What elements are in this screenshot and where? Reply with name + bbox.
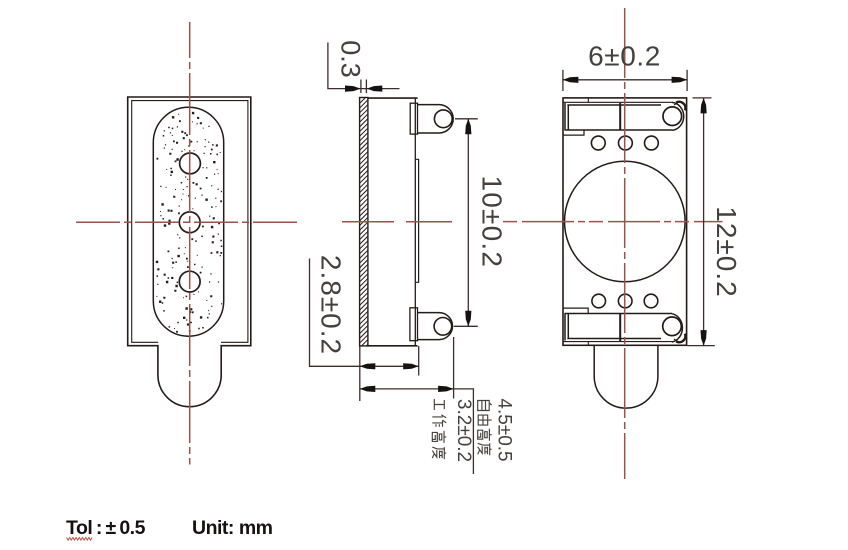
- side view bottom lug outline: [418, 313, 453, 340]
- front view vertical centerline: [189, 22, 191, 465]
- front view horizontal centerline: [76, 221, 298, 223]
- dimension 10±0.2 line: [467, 119, 469, 326]
- hole top: [180, 153, 201, 174]
- side view horizontal centerline: [342, 221, 454, 223]
- side view bottom face line: [368, 345, 418, 347]
- side view inner plate edge: [415, 159, 418, 282]
- side view top lug outline: [418, 105, 454, 133]
- dimension 6±0.2 extension lines: [562, 70, 564, 91]
- hole bottom: [179, 271, 200, 292]
- side view bottom lug hole: [434, 318, 452, 336]
- vent holes bottom row: [592, 294, 606, 308]
- svg-text:6±0.2: 6±0.2: [588, 41, 661, 72]
- vent holes top row: [591, 136, 605, 150]
- svg-text:Tol : ± 0.5: Tol : ± 0.5: [66, 517, 146, 539]
- svg-text:Unit: mm: Unit: mm: [192, 517, 273, 539]
- front view inner wall line: [132, 101, 248, 343]
- magnet circle: [565, 161, 686, 282]
- back view bottom boss: [594, 345, 658, 408]
- back view vertical centerline: [624, 8, 626, 479]
- side view top lug hole: [434, 110, 452, 128]
- dimension 12±0.2 extension lines: [693, 97, 712, 99]
- bottom bar seam: [619, 314, 621, 342]
- svg-text:12±0.2: 12±0.2: [711, 206, 742, 297]
- top bar seam: [619, 103, 621, 130]
- svg-text:10±0.2: 10±0.2: [476, 175, 507, 268]
- dimension 12±0.2 line: [703, 98, 705, 346]
- dimension 0.3 arrows: [345, 86, 361, 92]
- front view foam pad (stadium): [153, 107, 223, 336]
- label 工作高度 (working height): [434, 399, 444, 410]
- side view hatched plate: [360, 98, 368, 346]
- foam speckle texture: [156, 112, 223, 333]
- dimension 10±0.2 extension lines: [455, 118, 478, 120]
- top curled tab tip: [676, 102, 685, 111]
- spellcheck squiggle under Tol: [67, 538, 93, 541]
- dimension 6±0.2 line: [563, 79, 687, 81]
- dimension 2.8±0.2 bracket and line: [310, 259, 419, 367]
- side view top face line: [368, 97, 418, 99]
- label 自由高度 (free height): [478, 401, 492, 411]
- bottom lug rounded end: [672, 314, 682, 342]
- svg-text:3.2±0.2: 3.2±0.2: [453, 399, 474, 462]
- bottom curled tab tip: [676, 334, 685, 343]
- dimension 4.5 line with leader: [360, 389, 474, 474]
- dimension 0.3 bracket line: [328, 43, 400, 89]
- hole middle: [179, 212, 200, 233]
- svg-text:4.5±0.5: 4.5±0.5: [494, 398, 515, 461]
- top-left notch under bar: [563, 130, 584, 135]
- dimension 4.5 extension line: [453, 337, 455, 399]
- bottom-left notch above bar: [563, 308, 588, 314]
- front view outer outline with bottom tab: [128, 97, 251, 407]
- dimension 2.8 extension lines: [359, 346, 361, 401]
- back view top edge step line: [563, 98, 672, 102]
- svg-text:2.8±0.2: 2.8±0.2: [316, 255, 347, 355]
- top lug hole: [663, 107, 682, 126]
- back view horizontal centerline: [503, 221, 723, 223]
- side view bottom terminal bracket: [410, 308, 418, 341]
- back view top terminal bar: [564, 103, 672, 130]
- side view back face line: [414, 98, 416, 346]
- side view top terminal bracket: [410, 103, 417, 134]
- top lug rounded end: [672, 102, 684, 130]
- back view body rectangle: [563, 98, 687, 345]
- bottom edge step line: [563, 342, 672, 346]
- dimension 0.3 extension ticks: [360, 80, 362, 94]
- bottom lug hole: [663, 317, 682, 336]
- back view bottom terminal bar: [564, 314, 672, 341]
- svg-text:0.3: 0.3: [336, 40, 366, 78]
